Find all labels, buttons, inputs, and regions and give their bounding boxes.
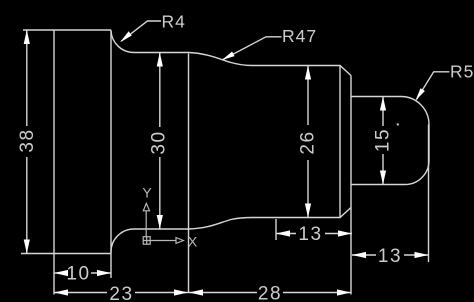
svg-text:X: X xyxy=(188,234,198,250)
svg-text:R47: R47 xyxy=(282,26,317,46)
svg-text:38: 38 xyxy=(17,128,38,152)
svg-text:26: 26 xyxy=(298,130,319,154)
svg-text:23: 23 xyxy=(109,284,133,302)
svg-text:13: 13 xyxy=(378,246,402,267)
svg-text:28: 28 xyxy=(258,284,282,302)
svg-text:13: 13 xyxy=(298,224,322,245)
svg-text:R5: R5 xyxy=(450,62,474,82)
svg-text:30: 30 xyxy=(148,130,169,154)
svg-text:Y: Y xyxy=(142,185,152,201)
svg-text:15: 15 xyxy=(373,128,394,152)
svg-text:10: 10 xyxy=(66,264,90,285)
svg-text:R4: R4 xyxy=(162,12,186,32)
